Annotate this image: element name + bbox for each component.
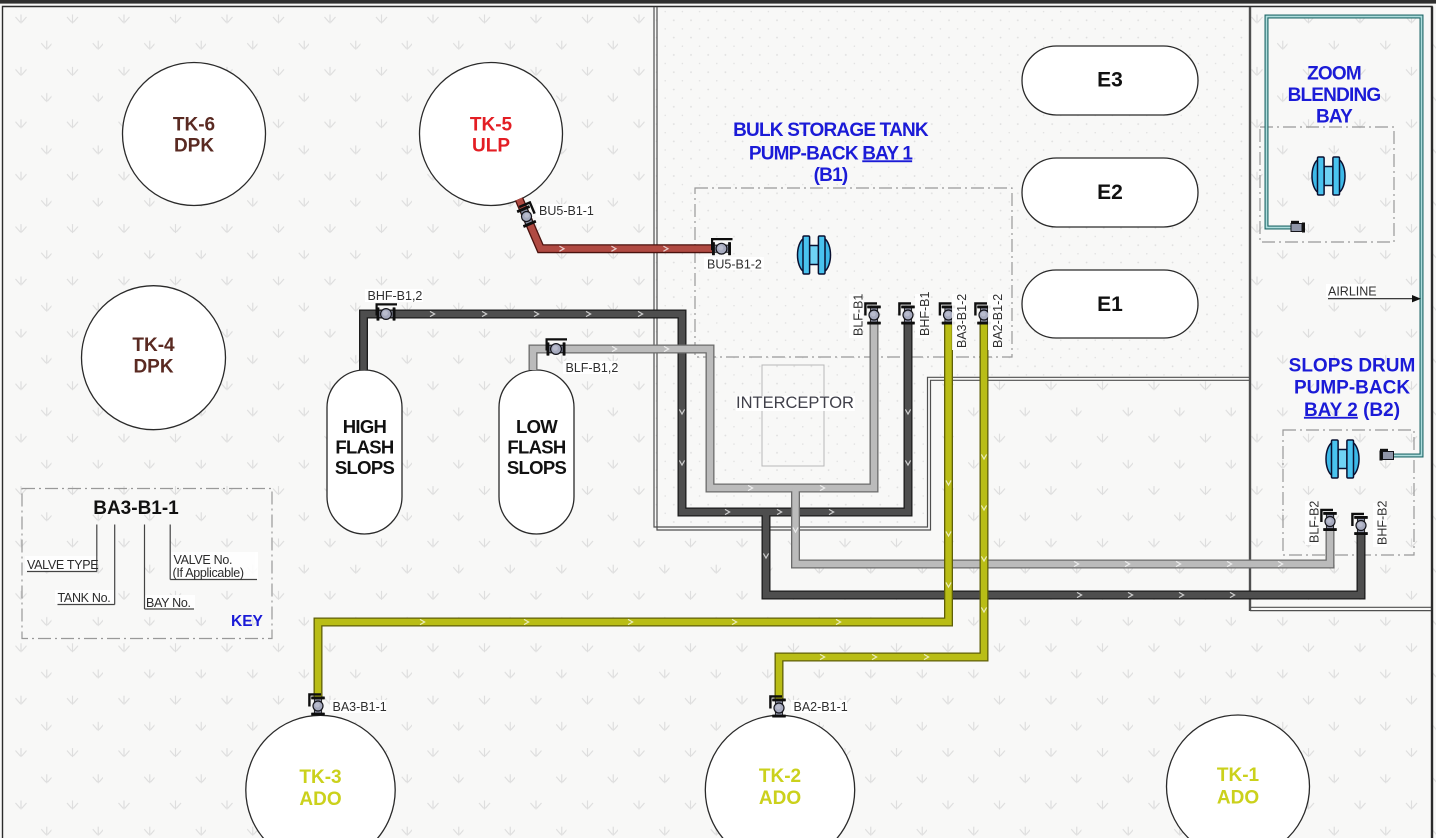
svg-text:KEY: KEY bbox=[231, 613, 264, 630]
svg-text:BAY No.: BAY No. bbox=[146, 596, 191, 610]
svg-text:BHF-B2: BHF-B2 bbox=[1376, 501, 1390, 546]
svg-text:BHF-B1,2: BHF-B1,2 bbox=[368, 289, 423, 303]
svg-text:DPK: DPK bbox=[133, 357, 173, 378]
svg-text:ADO: ADO bbox=[1217, 788, 1259, 809]
svg-text:BA3-B1-1: BA3-B1-1 bbox=[93, 498, 179, 519]
svg-text:ADO: ADO bbox=[299, 789, 341, 810]
svg-text:BA2-B1-2: BA2-B1-2 bbox=[991, 294, 1005, 348]
svg-text:TK-1: TK-1 bbox=[1217, 765, 1260, 786]
svg-text:DPK: DPK bbox=[174, 136, 214, 157]
svg-text:VALVE No.: VALVE No. bbox=[174, 553, 233, 567]
svg-text:TK-3: TK-3 bbox=[299, 767, 341, 788]
svg-text:ULP: ULP bbox=[472, 136, 510, 157]
svg-text:PUMP-BACK: PUMP-BACK bbox=[1294, 377, 1410, 398]
svg-text:BAY 2 (B2): BAY 2 (B2) bbox=[1304, 400, 1400, 421]
svg-text:SLOPS: SLOPS bbox=[335, 457, 395, 478]
svg-text:E2: E2 bbox=[1097, 181, 1123, 204]
svg-text:TK-2: TK-2 bbox=[759, 766, 801, 787]
svg-text:BLENDING: BLENDING bbox=[1288, 85, 1381, 106]
svg-text:BA3-B1-2: BA3-B1-2 bbox=[955, 294, 969, 348]
svg-text:BULK STORAGE TANK: BULK STORAGE TANK bbox=[733, 120, 929, 141]
svg-text:LOW: LOW bbox=[516, 416, 558, 437]
svg-text:INTERCEPTOR: INTERCEPTOR bbox=[736, 394, 854, 412]
svg-text:FLASH: FLASH bbox=[335, 437, 394, 458]
svg-text:AIRLINE: AIRLINE bbox=[1328, 285, 1377, 299]
svg-text:HIGH: HIGH bbox=[343, 416, 387, 437]
svg-text:ADO: ADO bbox=[759, 788, 801, 809]
svg-text:BU5-B1-1: BU5-B1-1 bbox=[539, 204, 594, 218]
svg-text:ZOOM: ZOOM bbox=[1307, 64, 1361, 85]
svg-text:BHF-B1: BHF-B1 bbox=[918, 292, 932, 337]
svg-text:SLOPS: SLOPS bbox=[507, 457, 567, 478]
svg-text:BA3-B1-1: BA3-B1-1 bbox=[333, 700, 387, 714]
svg-text:BAY: BAY bbox=[1316, 106, 1353, 127]
svg-text:PUMP-BACK BAY 1: PUMP-BACK BAY 1 bbox=[749, 143, 913, 164]
svg-text:BU5-B1-2: BU5-B1-2 bbox=[707, 258, 762, 272]
svg-text:E3: E3 bbox=[1097, 69, 1123, 92]
svg-text:BLF-B2: BLF-B2 bbox=[1308, 501, 1322, 543]
svg-text:TK-5: TK-5 bbox=[470, 115, 513, 136]
svg-text:(If Applicable): (If Applicable) bbox=[173, 566, 244, 580]
svg-text:TK-4: TK-4 bbox=[132, 335, 175, 356]
svg-text:SLOPS DRUM: SLOPS DRUM bbox=[1289, 355, 1416, 376]
svg-text:TK-6: TK-6 bbox=[173, 115, 215, 136]
svg-text:(B1): (B1) bbox=[814, 165, 848, 186]
svg-text:BA2-B1-1: BA2-B1-1 bbox=[794, 700, 848, 714]
svg-text:VALVE TYPE: VALVE TYPE bbox=[27, 558, 98, 572]
svg-text:FLASH: FLASH bbox=[507, 437, 566, 458]
svg-text:BLF-B1: BLF-B1 bbox=[852, 294, 866, 336]
svg-text:BLF-B1,2: BLF-B1,2 bbox=[566, 361, 619, 375]
svg-text:TANK No.: TANK No. bbox=[58, 591, 111, 605]
svg-text:E1: E1 bbox=[1097, 293, 1123, 316]
